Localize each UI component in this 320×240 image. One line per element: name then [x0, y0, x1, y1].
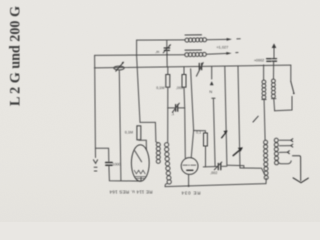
label N — [209, 89, 212, 94]
wiper arrow on D3 — [233, 147, 243, 155]
capacitor C2 variable — [163, 40, 170, 67]
coil L1 with core — [185, 35, 207, 42]
wire bottom rail right end up — [265, 178, 267, 183]
wire arrow A1 — [207, 38, 241, 41]
wire dropper D3 — [238, 66, 240, 168]
label coupling value — [217, 45, 229, 49]
coil L2 with core — [185, 50, 207, 57]
svg-text:RE 034: RE 034 — [181, 190, 200, 195]
svg-text:0,1M: 0,1M — [125, 131, 133, 135]
capacitor C4 — [267, 59, 277, 62]
label R4 — [196, 130, 201, 134]
wire dropper N line — [210, 67, 215, 167]
capacitor C3 series in rail — [196, 63, 203, 77]
wire grid to tube V2 — [191, 131, 193, 158]
svg-text:0,1: 0,1 — [196, 130, 201, 134]
capacitor C6 1000 — [106, 163, 113, 166]
wire main rail — [95, 65, 291, 68]
label R3 — [125, 131, 133, 135]
label C5 — [171, 112, 174, 116]
svg-text:,002: ,002 — [210, 171, 217, 175]
wire top step to coil L1 — [137, 39, 185, 41]
wire tube V1 cathode pin — [140, 178, 142, 182]
transformer Tr1 secondary — [165, 143, 172, 184]
label C7 — [210, 171, 217, 175]
label 1000 — [112, 163, 120, 167]
label tube V2 — [181, 190, 200, 195]
wire grid tee to transformer — [140, 122, 158, 143]
label R2 — [176, 86, 183, 90]
tap 3 — [279, 151, 289, 154]
resistor R1 — [166, 67, 170, 143]
label C2 — [155, 50, 159, 54]
wire trimmer dropper — [119, 71, 121, 181]
capacitor C5 coupling — [168, 103, 185, 112]
wire D2 foot — [227, 165, 244, 168]
trimmer capacitor C1 — [114, 62, 124, 71]
svg-text:,m: ,m — [155, 50, 159, 54]
svg-text:RE 114 u. RES 164: RE 114 u. RES 164 — [109, 190, 152, 195]
capacitor C7 — [203, 162, 227, 170]
wire dropper D2 with wiper — [222, 66, 228, 165]
svg-text:0,1M: 0,1M — [156, 86, 164, 90]
wire left vertical antenna line — [94, 55, 96, 148]
wire vertical step — [136, 40, 138, 56]
tap 1 — [279, 139, 292, 142]
label C4 — [254, 59, 264, 63]
wire lead to coil L2 — [95, 54, 185, 57]
wire branch to blocking capacitor — [95, 148, 108, 161]
title text L 2 G und 200 G — [8, 6, 24, 106]
wire C4 to rail — [273, 61, 275, 65]
transformer Tr1 primary — [156, 143, 160, 164]
svg-text:≈1,027: ≈1,027 — [217, 45, 229, 49]
antenna arrow — [272, 43, 277, 57]
wire Tr1 secondary bottom to rail — [165, 184, 167, 187]
tap 2 — [279, 144, 292, 147]
svg-text:N: N — [209, 89, 212, 94]
coil L3 loading — [272, 65, 276, 111]
wire arrow A2 — [206, 52, 238, 55]
wire R2 lower to tube V2 — [184, 108, 187, 158]
wire capacitor to cathode line — [109, 165, 141, 181]
tube V1 RE114 — [131, 145, 149, 181]
transformer Tr2 primary — [264, 140, 269, 179]
resistor R3 — [137, 126, 141, 140]
wire R3 bottom to tube grid cap — [139, 140, 147, 150]
label tube V1 — [109, 190, 152, 195]
svg-text:≈0002: ≈0002 — [254, 59, 264, 63]
wire H8 to output transformer — [240, 168, 265, 174]
tap 4 hook — [278, 161, 292, 164]
svg-text:,009: ,009 — [176, 86, 183, 90]
svg-text:1000: 1000 — [112, 163, 120, 167]
resistor R4 — [191, 69, 208, 167]
transformer Tr2 secondary with taps — [274, 138, 278, 165]
wire tube V2 cathode pin — [188, 174, 190, 187]
antenna terminal chevron — [93, 148, 97, 171]
tube V2 RE034 — [181, 158, 198, 175]
svg-text:L 2 G und 200 G: L 2 G und 200 G — [8, 6, 24, 106]
speaker arrow — [293, 156, 309, 183]
switch S1 — [275, 65, 295, 111]
switch S2 blade — [253, 116, 258, 122]
svg-text:,1: ,1 — [171, 112, 174, 116]
wire bottom rail — [165, 184, 266, 187]
wire grid line vertical — [137, 56, 140, 123]
choke L4 — [262, 65, 266, 140]
label R1 — [156, 86, 164, 90]
resistor R2 — [182, 67, 186, 108]
